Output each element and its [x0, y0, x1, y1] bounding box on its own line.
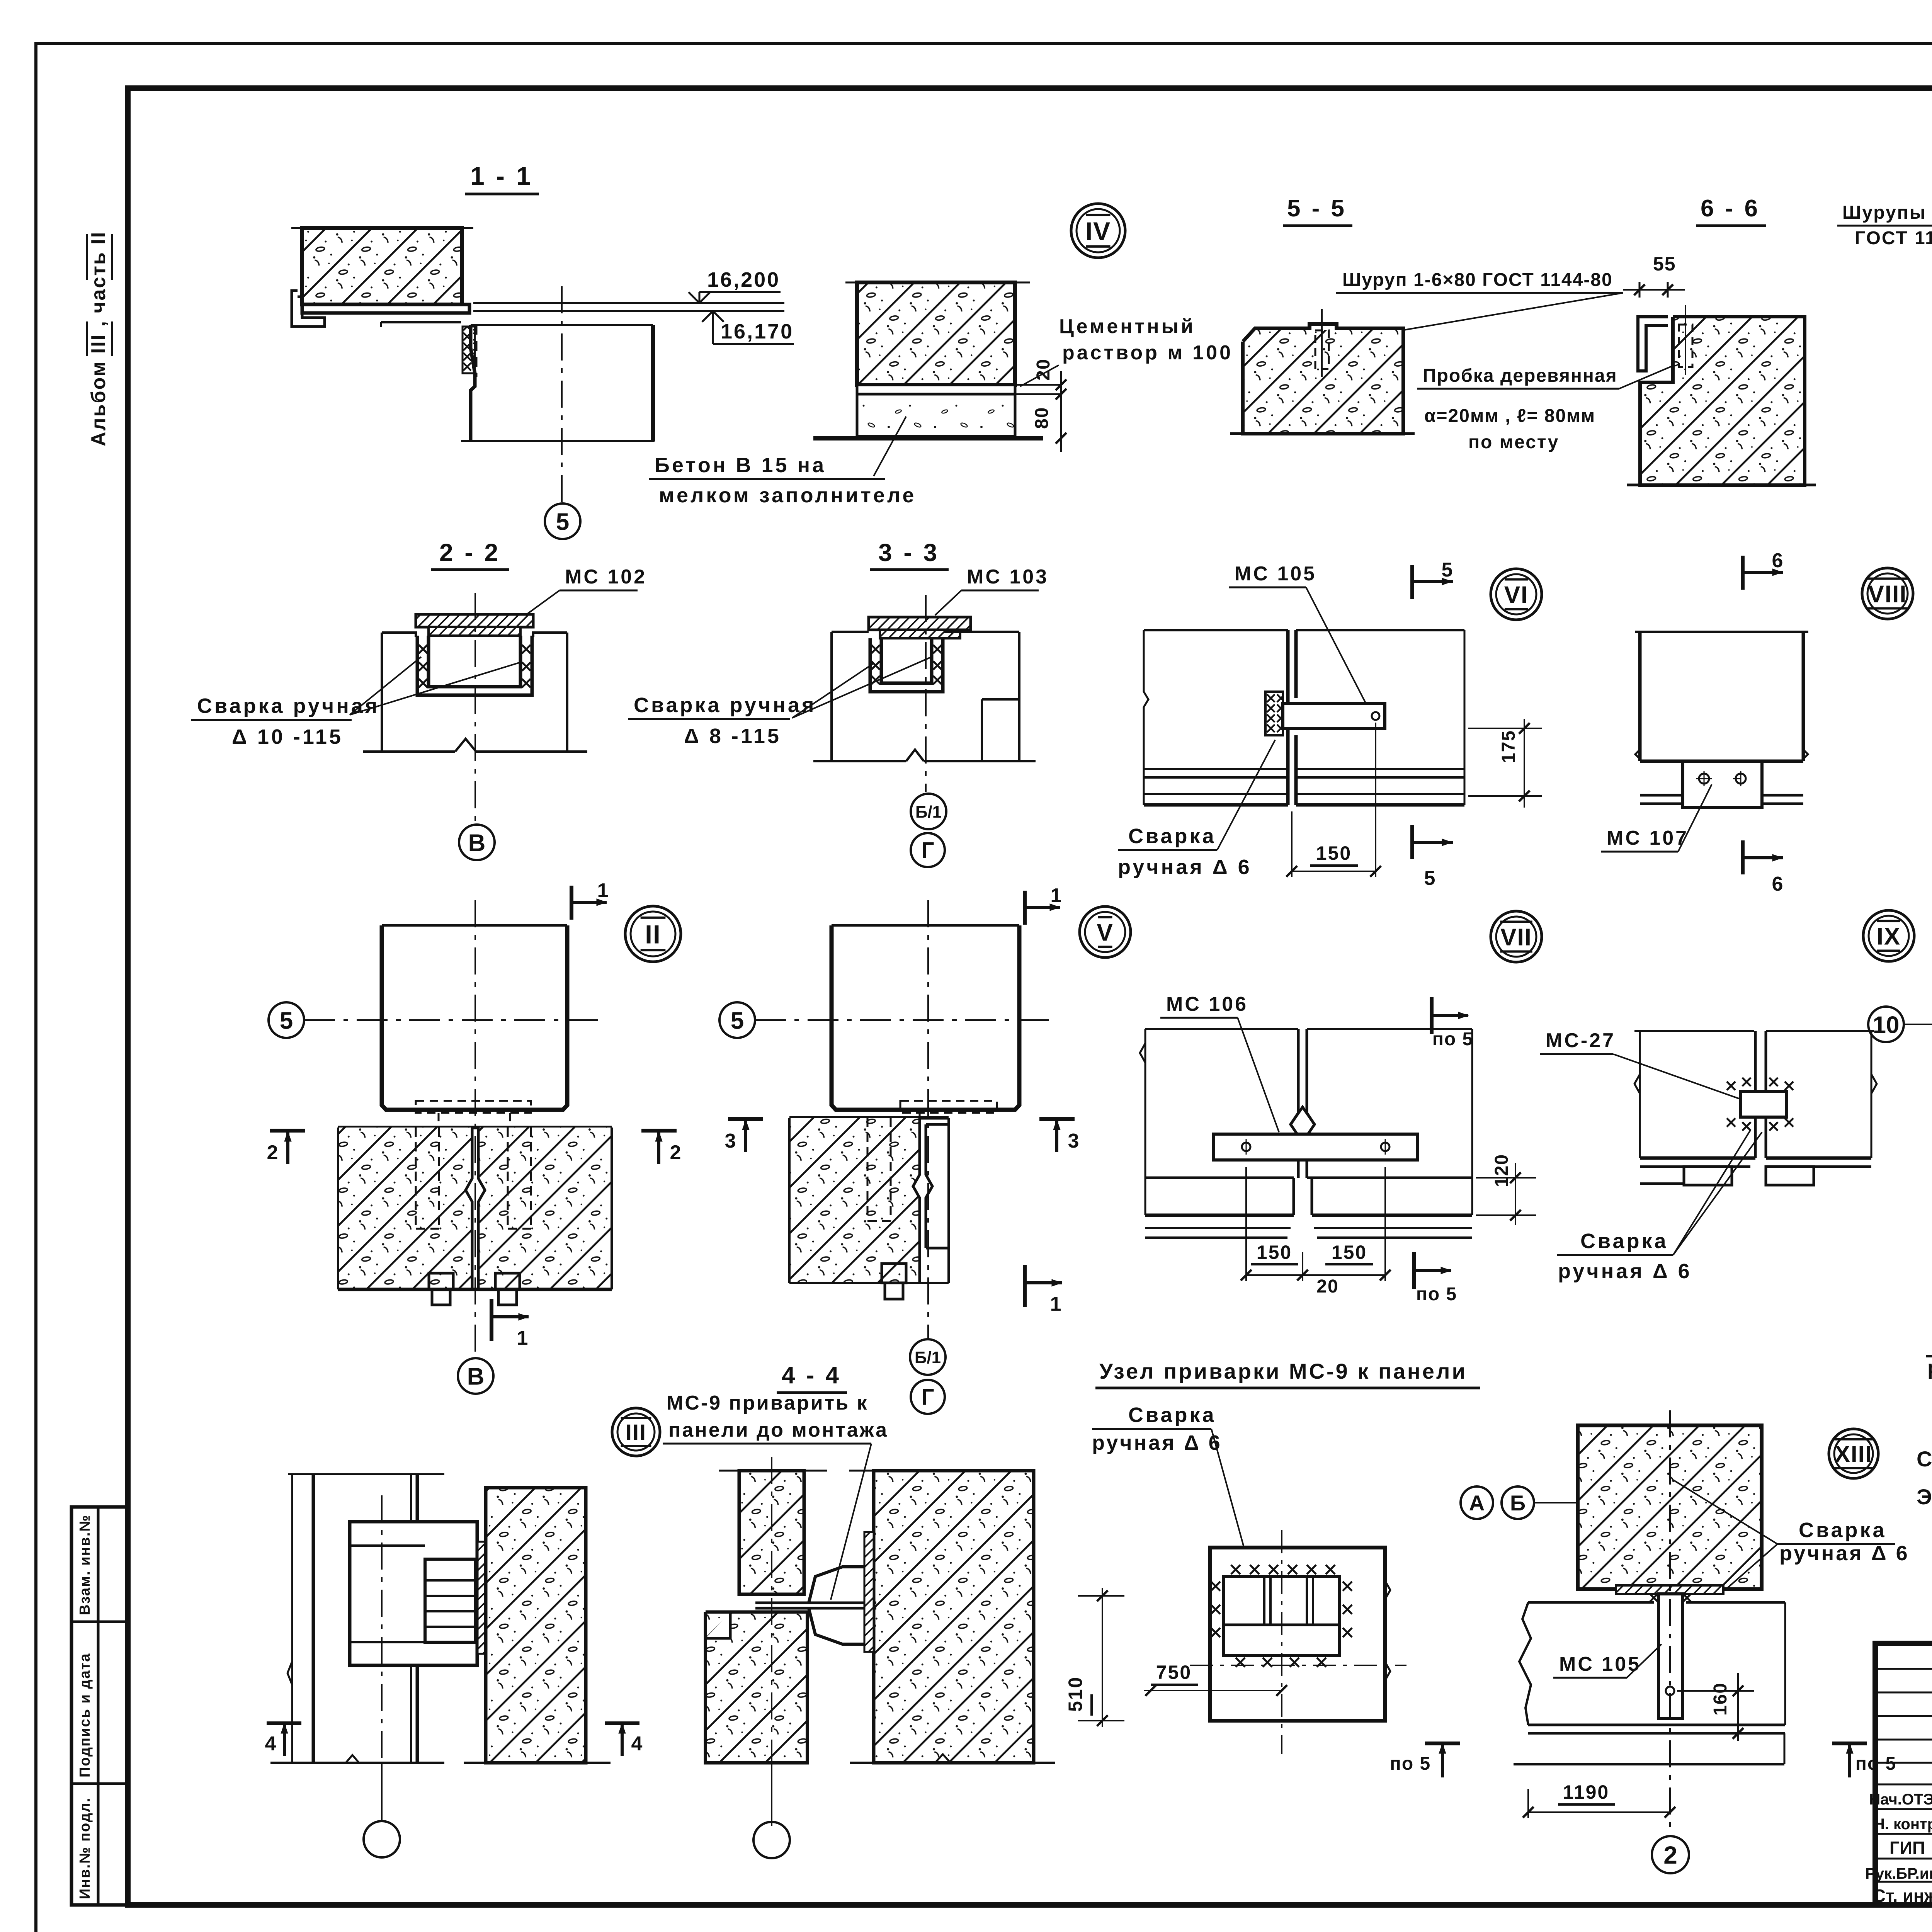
svg-text:II: II [645, 920, 661, 949]
svg-text:МС-27: МС-27 [1546, 1029, 1616, 1052]
svg-text:6: 6 [1772, 549, 1783, 572]
section flag 4 right (III) [605, 1721, 639, 1725]
centerline (XIII) [1669, 1410, 1671, 1833]
panel joint (II) [466, 1128, 472, 1289]
svg-text:Сварка: Сварка [1580, 1230, 1668, 1253]
svg-text:Б/1: Б/1 [915, 803, 942, 821]
svg-text:10: 10 [1873, 1012, 1900, 1038]
beam outline (1-1) [471, 325, 475, 441]
axis circle В (II) [458, 1358, 493, 1394]
centerline (III) [381, 1495, 383, 1821]
axis circle Б/1 (3-3) [911, 794, 946, 829]
svg-text:5: 5 [731, 1007, 744, 1034]
svg-text:ручная Δ 6: ручная Δ 6 [1779, 1542, 1910, 1565]
svg-text:Инв.№ подл.: Инв.№ подл. [77, 1797, 93, 1899]
svg-text:150: 150 [1316, 842, 1352, 864]
svg-text:1 - 1: 1 - 1 [470, 162, 533, 190]
panel (VII) [1635, 631, 1808, 633]
mc103 plate (3-3) [869, 617, 971, 630]
svg-text:4: 4 [631, 1733, 643, 1755]
axis circle Б/1 (V) [910, 1339, 946, 1375]
svg-text:МС 106: МС 106 [1166, 993, 1248, 1015]
svg-text:Сварка: Сварка [1128, 825, 1216, 848]
panel (XIII) [1528, 1601, 1654, 1604]
axis circles A B (XIII) [1461, 1486, 1493, 1519]
svg-text:раствор м 100: раствор м 100 [1062, 342, 1233, 364]
svg-text:2 - 2: 2 - 2 [439, 539, 500, 566]
svg-text:150: 150 [1257, 1242, 1292, 1263]
section flag 5 bottom (VI) [1410, 825, 1414, 859]
dim lines 20/80 (IV) [1015, 384, 1061, 386]
svg-text:6: 6 [1772, 873, 1783, 895]
svg-text:В: В [468, 830, 486, 856]
detail circle IV [1071, 204, 1125, 258]
axis circle 2 (XIII) [1652, 1836, 1689, 1873]
axis circle 5 (V) [719, 1002, 755, 1038]
svg-text:2: 2 [670, 1141, 681, 1164]
svg-text:Ст. инж.: Ст. инж. [1873, 1886, 1932, 1906]
po5 flag right (XIII) [1832, 1742, 1867, 1745]
weld x left (3-3) [871, 645, 880, 653]
base line (5-5) [1230, 432, 1415, 435]
mc102 strip2 (2-2) [429, 627, 520, 636]
svg-text:по месту: по месту [1468, 432, 1559, 452]
weld leader (3-3) [792, 657, 932, 718]
wood plug dashed (6-6) [1679, 325, 1692, 367]
level line 16.170 (1-1) [473, 310, 784, 312]
centerline (2-2) [474, 593, 476, 823]
panel top edge (V) [789, 1116, 949, 1120]
svg-text:Г: Г [921, 838, 934, 863]
po5 flag top (МС106) [1430, 997, 1434, 1034]
section flag 1 (II top) [570, 886, 573, 920]
title block outer [1875, 1643, 1932, 1905]
joint diamond (МС106) [1291, 1029, 1315, 1142]
base line (3-3) [813, 760, 906, 762]
svg-text:4 - 4: 4 - 4 [782, 1362, 841, 1389]
mc27 welds [1727, 1082, 1735, 1090]
left panel (VI) [1144, 629, 1288, 631]
svg-text:2: 2 [267, 1141, 278, 1164]
svg-text:МС 102: МС 102 [565, 566, 647, 588]
detail circle IX [1863, 910, 1914, 961]
right panel (IX) [1766, 1030, 1874, 1032]
panel outline (V) [788, 1118, 791, 1283]
svg-text:МС 105: МС 105 [1559, 1653, 1641, 1675]
left panel (IX) [1634, 1030, 1754, 1032]
svg-text:В: В [467, 1363, 485, 1390]
axis circle Г (3-3) [911, 833, 945, 867]
mc9 plate (uzel) [1223, 1577, 1340, 1656]
panel hatch (V) [789, 1118, 920, 1283]
section flag 6 top (VII) [1741, 556, 1745, 590]
channel (3-3) [870, 638, 943, 692]
panel outline (II) [337, 1128, 339, 1289]
concrete outline (2-2) [382, 633, 417, 636]
left panel (МС106) [1145, 1028, 1298, 1030]
svg-text:Сварка: Сварка [1128, 1403, 1216, 1427]
svg-text:ручная Δ 6: ручная Δ 6 [1927, 1356, 1932, 1379]
weld x left (2-2) [419, 645, 427, 653]
bracket (4-4) [755, 1602, 876, 1604]
svg-text:5 - 5: 5 - 5 [1287, 195, 1347, 222]
po5 flag left (XIII) [1425, 1742, 1460, 1745]
lower left panel (4-4) [706, 1612, 807, 1763]
weld leader (2-2) [350, 662, 520, 715]
washer plate (XIII) [1616, 1585, 1723, 1594]
panel square (uzel) [1210, 1548, 1385, 1721]
weld x right (2-2) [522, 645, 531, 653]
axis circle 10 (XII) [1868, 1007, 1904, 1042]
svg-text:Δ 10 -115: Δ 10 -115 [232, 725, 343, 748]
panel top line (1-1) [291, 227, 473, 229]
svg-text:IV: IV [1085, 217, 1111, 245]
svg-text:510: 510 [1065, 1676, 1086, 1712]
column (II) [382, 925, 567, 1110]
svg-text:МС 105: МС 105 [1235, 563, 1316, 585]
section flag 2 left (II) [270, 1129, 305, 1133]
hatched block (XIII) [1578, 1425, 1762, 1589]
svg-text:1: 1 [597, 879, 609, 902]
column (III) [288, 1473, 444, 1475]
svg-text:Сварка ручная: Сварка ручная [634, 694, 816, 717]
svg-text:МС-9 приварить к: МС-9 приварить к [667, 1392, 869, 1414]
centerline (V) [927, 900, 929, 1340]
svg-text:Шуруп 1-6×80 ГОСТ 1144-80: Шуруп 1-6×80 ГОСТ 1144-80 [1342, 270, 1613, 290]
svg-text:А: А [1469, 1491, 1485, 1515]
axis circle Г (V) [911, 1380, 945, 1414]
svg-text:α=20мм , ℓ= 80мм: α=20мм , ℓ= 80мм [1424, 406, 1595, 426]
svg-text:750: 750 [1156, 1662, 1192, 1683]
svg-text:1: 1 [1050, 1293, 1061, 1315]
svg-text:20: 20 [1033, 359, 1054, 381]
svg-text:ГОСТ 1144-80: ГОСТ 1144-80 [1855, 228, 1932, 248]
stamp row divider 2 [71, 1782, 128, 1785]
section flag 1 (II bottom) [490, 1299, 493, 1341]
svg-text:16,200: 16,200 [707, 268, 780, 291]
svg-text:Альбом III , часть II: Альбом III , часть II [87, 231, 110, 446]
svg-text:Сварка: Сварка [1799, 1519, 1887, 1542]
connector dashed (II) [416, 1101, 531, 1113]
po5 flag bottom (МС106) [1412, 1252, 1416, 1289]
svg-text:6 - 6: 6 - 6 [1701, 195, 1760, 222]
svg-text:по 5: по 5 [1855, 1753, 1896, 1774]
weld strip (1-1) [463, 327, 475, 373]
stamp column box [71, 1507, 128, 1905]
concrete panel (IV) [857, 282, 1015, 385]
weld x marks (uzel) [1231, 1565, 1240, 1574]
svg-text:175: 175 [1498, 730, 1519, 763]
svg-text:120: 120 [1492, 1154, 1512, 1187]
top line (IV) [845, 282, 1030, 284]
svg-text:по 5: по 5 [1432, 1029, 1473, 1049]
stamp column divider vertical [97, 1507, 100, 1905]
svg-text:Рук.БР.инж: Рук.БР.инж [1865, 1865, 1932, 1882]
svg-text:Сварка ручная: Сварка ручная [197, 694, 379, 718]
right panel (VI) [1296, 629, 1464, 631]
base line (2-2) [363, 750, 455, 753]
svg-text:5: 5 [1424, 867, 1435, 889]
mc102 plate (2-2) [416, 614, 533, 627]
wall weld strip (III) [478, 1542, 487, 1654]
mc105 anchor (XIII) [1658, 1594, 1682, 1718]
mortar strip (IV) [857, 385, 1015, 394]
upper panel (4-4) [719, 1470, 827, 1472]
svg-text:Δ 8 -115: Δ 8 -115 [684, 724, 781, 748]
svg-text:5: 5 [556, 509, 569, 535]
svg-text:Взам. инв.№: Взам. инв.№ [77, 1514, 93, 1615]
connector dashed (V) [900, 1101, 997, 1113]
concrete B15 strip (IV) [857, 394, 1015, 436]
panel hatch right (II) [478, 1128, 612, 1289]
axis circle empty (4-4) [753, 1822, 790, 1858]
hatched wall (III) [486, 1488, 586, 1763]
axis circle В (2-2) [459, 825, 495, 860]
panel joint (V) [913, 1118, 920, 1283]
right wall (4-4) [854, 1456, 1043, 1457]
svg-text:ГИП: ГИП [1889, 1838, 1925, 1858]
svg-text:Цементный: Цементный [1059, 315, 1196, 338]
panel top edge (II) [338, 1126, 612, 1129]
svg-text:2: 2 [1663, 1841, 1677, 1869]
svg-text:V: V [1097, 919, 1113, 946]
svg-text:VII: VII [1500, 924, 1532, 951]
section flag 1 (V top) [1023, 891, 1027, 925]
concrete panel (6-6) [1640, 317, 1804, 485]
detail circle III [612, 1408, 660, 1456]
svg-text:Шурупы 1-6×80: Шурупы 1-6×80 [1842, 202, 1932, 223]
svg-text:Узел приварки МС-9 к панели: Узел приварки МС-9 к панели [1099, 1359, 1467, 1383]
svg-text:3 - 3: 3 - 3 [878, 539, 939, 566]
svg-text:Б: Б [1510, 1491, 1526, 1515]
section flag 1 (V bottom) [1023, 1265, 1027, 1307]
base line (IV) [813, 436, 1043, 440]
weld x right (3-3) [933, 645, 942, 653]
slab lines (VII) [1640, 794, 1803, 797]
section flag 2 right (II) [641, 1129, 677, 1133]
section flag 3 left (V) [728, 1117, 763, 1121]
detail circle V [1080, 906, 1131, 957]
joint lines (IX) [1754, 1031, 1757, 1092]
anchor dashed (V) [867, 1118, 869, 1221]
panel hatch left (II) [338, 1128, 472, 1289]
axis circle empty (III) [364, 1821, 400, 1857]
svg-text:Э42 по ГОСТ 9467-75: Э42 по ГОСТ 9467-75 [1917, 1485, 1932, 1509]
section flag 4 left (III) [267, 1721, 301, 1725]
svg-text:панели до монтажа: панели до монтажа [668, 1419, 888, 1441]
centerline (3-3) [925, 595, 927, 792]
svg-text:XIII: XIII [1835, 1441, 1872, 1467]
svg-text:МС 107: МС 107 [1607, 827, 1689, 849]
svg-text:ручная Δ 6: ручная Δ 6 [1092, 1431, 1222, 1454]
svg-text:Сварку выполнять электродам: Сварку выполнять электродами [1917, 1447, 1932, 1471]
svg-text:150: 150 [1332, 1242, 1367, 1263]
svg-text:55: 55 [1653, 253, 1676, 275]
mc107 bracket (VII) [1683, 761, 1762, 808]
channel (2-2) [417, 636, 532, 695]
centerlines (uzel) [1281, 1530, 1282, 1754]
svg-text:ручная Δ 6: ручная Δ 6 [1558, 1260, 1692, 1283]
album label numeral marks [86, 321, 88, 356]
weld box (VI) [1265, 692, 1283, 735]
wood plug dashed (5-5) [1315, 330, 1329, 369]
concrete outline (3-3) [832, 631, 869, 633]
svg-text:Подпись и дата: Подпись и дата [77, 1653, 93, 1777]
anchor feet (V) [882, 1264, 906, 1283]
column (V) [832, 925, 1019, 1110]
mc106 plate [1213, 1134, 1417, 1160]
bracket (III) [350, 1522, 477, 1665]
svg-text:Бетон B 15 на: Бетон B 15 на [655, 454, 826, 477]
svg-text:1190: 1190 [1563, 1781, 1609, 1803]
anchor feet (II) [429, 1273, 453, 1289]
svg-text:5: 5 [280, 1007, 293, 1034]
svg-text:по 5: по 5 [1416, 1284, 1457, 1304]
right panel (МС106) [1307, 1028, 1472, 1030]
svg-text:IX: IX [1877, 923, 1901, 950]
svg-text:Г: Г [921, 1384, 934, 1410]
svg-text:4: 4 [265, 1733, 276, 1755]
svg-text:III: III [626, 1420, 646, 1445]
svg-text:ручная Δ 6: ручная Δ 6 [1118, 855, 1252, 879]
svg-text:Пробка деревянная: Пробка деревянная [1423, 366, 1617, 386]
svg-text:Н. контр.: Н. контр. [1874, 1816, 1932, 1833]
svg-text:80: 80 [1032, 407, 1052, 429]
axis circle 5 (1-1) [545, 503, 580, 539]
svg-text:1: 1 [1051, 884, 1062, 907]
detail circle XIII [1829, 1429, 1878, 1478]
svg-text:мелком заполнителе: мелком заполнителе [659, 484, 916, 507]
centerline (4-4) [771, 1457, 772, 1828]
svg-text:20: 20 [1316, 1276, 1338, 1297]
axis circle 5 (II) [269, 1002, 304, 1038]
level line 16.200 (1-1) [473, 302, 784, 304]
svg-text:Б/1: Б/1 [915, 1348, 941, 1367]
section flag 6 bottom (VII) [1741, 840, 1745, 874]
detail circle II [625, 906, 681, 962]
angle bracket (6-6) [1638, 317, 1668, 371]
concrete panel (5-5) [1243, 324, 1403, 434]
svg-text:VIII: VIII [1868, 581, 1907, 607]
svg-text:по 5: по 5 [1390, 1753, 1431, 1774]
svg-text:1: 1 [517, 1327, 528, 1349]
concrete panel (1-1) [302, 228, 462, 304]
centerline (1-1) [561, 286, 563, 502]
svg-text:VI: VI [1504, 582, 1529, 608]
svg-text:Нач.ОТЭП: Нач.ОТЭП [1869, 1791, 1932, 1808]
mc105 plate (VI) [1283, 703, 1385, 729]
mc27 connector [1740, 1092, 1786, 1117]
steel angle shelf (1-1) [292, 291, 325, 327]
svg-text:3: 3 [725, 1130, 736, 1152]
stamp row divider 1 [71, 1621, 128, 1623]
anchor dashed (II) [415, 1128, 417, 1229]
centerline (II) [474, 900, 476, 1358]
svg-text:160: 160 [1710, 1682, 1731, 1716]
svg-text:5: 5 [1442, 559, 1453, 581]
mc103 strip2 (3-3) [880, 630, 960, 638]
detail circle VI [1491, 569, 1542, 620]
signature table grid [1875, 1668, 1932, 1670]
svg-text:МС 103: МС 103 [967, 566, 1049, 588]
svg-text:16,170: 16,170 [721, 320, 794, 343]
section flag 5 top (VI) [1410, 565, 1414, 599]
base line (6-6) [1627, 484, 1816, 486]
detail circle VIII [1862, 568, 1913, 619]
svg-text:3: 3 [1068, 1130, 1079, 1152]
section flag 3 right (V) [1039, 1117, 1075, 1121]
detail circle VII [1491, 911, 1542, 962]
